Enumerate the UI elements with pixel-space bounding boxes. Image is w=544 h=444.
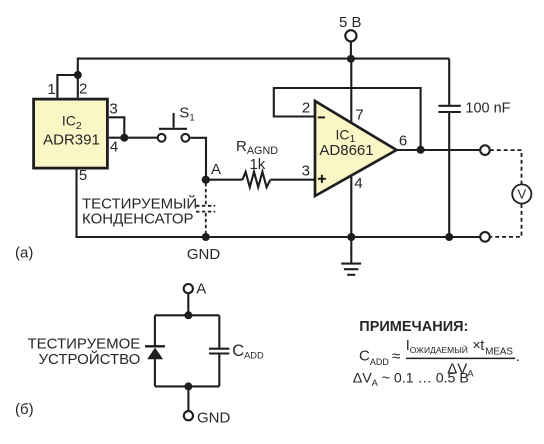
wire IC2 pin1 to pin2 <box>57 75 77 98</box>
svg-text:3: 3 <box>109 101 117 118</box>
svg-text:.: . <box>516 348 520 365</box>
terminal GND <box>184 411 193 420</box>
svg-text:2: 2 <box>302 100 310 117</box>
wire loop top <box>155 314 219 316</box>
svg-text:ПРИМЕЧАНИЯ:: ПРИМЕЧАНИЯ: <box>359 319 468 335</box>
svg-text:4: 4 <box>110 139 118 156</box>
svg-text:ТЕСТИРУЕМОЕ: ТЕСТИРУЕМОЕ <box>27 335 140 352</box>
svg-text:5 В: 5 В <box>339 14 362 31</box>
svg-text:(а): (а) <box>15 244 33 261</box>
svg-text:3: 3 <box>302 163 310 180</box>
junction loop top <box>184 311 192 319</box>
wire capacitor to ground rail <box>448 113 450 237</box>
junction +5V rail <box>347 55 355 63</box>
wire +5V terminal to rail <box>350 41 352 58</box>
switch S1 contact left <box>158 134 166 142</box>
formula fraction bar <box>406 357 515 359</box>
dashed test capacitor plate top <box>196 205 215 207</box>
svg-text:GND: GND <box>197 409 231 426</box>
wire loop bottom <box>155 385 219 387</box>
junction GND node A <box>202 233 210 241</box>
junction pin3/pin4 <box>120 134 128 142</box>
wire top +5V rail <box>78 59 449 98</box>
junction pin4 ground rail <box>347 233 355 241</box>
svg-text:A: A <box>211 161 221 178</box>
capacitor CADD plates <box>209 349 229 354</box>
svg-text:AD8661: AD8661 <box>319 142 373 159</box>
svg-text:1k: 1k <box>249 156 265 173</box>
IC U2 ADR391 box <box>34 99 108 168</box>
wire bottom ground rail <box>77 169 481 237</box>
wire loop left upper <box>154 315 156 345</box>
svg-text:7: 7 <box>355 107 363 124</box>
junction capacitor ground rail <box>445 233 453 241</box>
svg-text:УСТРОЙСТВО: УСТРОЙСТВО <box>38 350 140 368</box>
svg-text:V: V <box>517 187 526 202</box>
wire ground stub <box>350 237 352 263</box>
wire IC2 pin4 to switch <box>109 137 158 139</box>
wire loop left lower <box>154 359 156 386</box>
resistor RAGND 1k zigzag <box>243 172 271 187</box>
svg-text:(б): (б) <box>15 401 34 418</box>
svg-text:ADR391: ADR391 <box>43 131 100 148</box>
dashed test capacitor lead bottom <box>205 213 207 235</box>
ground symbol <box>341 264 361 275</box>
wire IC2 pin3 to pin4 <box>109 117 125 137</box>
wire op-amp pin7 supply <box>350 59 352 124</box>
wire feedback loop pin2 to output <box>274 88 421 150</box>
svg-text:4: 4 <box>354 175 362 192</box>
terminal output top <box>480 145 490 155</box>
wire A to loop <box>187 293 189 315</box>
dashed voltmeter loop top <box>490 150 522 184</box>
diode cathode bar <box>145 345 165 347</box>
svg-text:ΔVA ~ 0.1 … 0.5 В: ΔVA ~ 0.1 … 0.5 В <box>353 371 469 388</box>
wire loop to GND terminal <box>187 386 189 411</box>
svg-text:5: 5 <box>79 167 87 184</box>
op-amp U1 AD8661 triangle <box>315 101 397 196</box>
wire op-amp output <box>397 149 481 151</box>
wire op-amp pin4 to ground rail <box>350 176 352 237</box>
voltmeter V <box>512 184 531 203</box>
svg-text:A: A <box>196 281 206 298</box>
svg-text:100 nF: 100 nF <box>465 101 510 117</box>
node A junction <box>202 176 210 184</box>
switch S1 contact right <box>182 134 190 142</box>
junction loop bottom <box>184 382 192 390</box>
capacitor 100nF plates <box>438 106 460 112</box>
svg-text:6: 6 <box>399 132 407 149</box>
diode anode triangle <box>147 348 163 360</box>
junction output feedback <box>417 146 425 154</box>
junction pin1/pin2 <box>74 71 82 79</box>
svg-text:2: 2 <box>79 81 87 98</box>
dashed voltmeter loop bottom <box>490 204 522 237</box>
switch S1 actuator <box>173 113 175 128</box>
label plus input <box>318 175 326 183</box>
wire loop right lower <box>218 355 220 387</box>
svg-text:GND: GND <box>187 246 221 263</box>
svg-text:1: 1 <box>47 81 55 98</box>
svg-text:КОНДЕНСАТОР: КОНДЕНСАТОР <box>82 211 194 228</box>
wire node A to resistor <box>206 179 243 181</box>
wire resistor to op-amp pin3 <box>270 179 315 181</box>
wire +5V rail down to capacitor <box>448 59 450 105</box>
dashed test capacitor lead top <box>205 183 207 205</box>
terminal output bottom <box>480 232 490 242</box>
wire switch to node A <box>190 138 206 180</box>
dashed test capacitor plate bottom <box>196 211 215 213</box>
section b: terminal A <box>184 284 193 293</box>
terminal +5V <box>345 30 356 41</box>
wire loop right upper <box>218 315 220 348</box>
label minus input <box>318 116 325 118</box>
